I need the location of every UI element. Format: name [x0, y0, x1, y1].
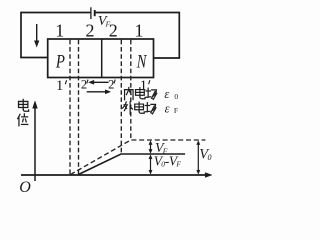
boundary line 2 right (dashed, down to biased plateau): [120, 40, 122, 154]
svg-text:1: 1: [55, 21, 64, 41]
svg-text:ε: ε: [165, 102, 170, 116]
svg-text:2: 2: [81, 78, 87, 92]
svg-text:V0-VF: V0-VF: [154, 153, 182, 168]
boundary line 2 left (dashed, down to axis): [78, 40, 80, 175]
junction center line: [101, 39, 103, 77]
battery VF long plate (+): [90, 7, 92, 19]
svg-text:1: 1: [140, 78, 148, 94]
svg-text:N: N: [136, 51, 148, 72]
wire right bottom horizontal into N: [154, 57, 181, 59]
potential curve no bias (dashed): rise then plateau V0: [70, 140, 205, 175]
label 外电场 eF (external field): [123, 102, 178, 116]
potential axis vertical: [33, 101, 38, 181]
svg-text:1: 1: [135, 21, 144, 41]
PN junction block outline: [48, 39, 154, 78]
wire left bottom horizontal into P: [20, 57, 48, 59]
V0 arrow (V0 plateau to axis): [197, 141, 200, 174]
svg-text:2: 2: [108, 78, 114, 92]
wire top-left from battery to left corner: [21, 12, 90, 14]
svg-text:V0: V0: [199, 147, 211, 163]
potential curve with bias (solid): rise then plateau V0-VF: [78, 154, 185, 175]
svg-text:F: F: [174, 106, 178, 115]
svg-text:O: O: [19, 179, 31, 192]
VF gap arrow (between V0 and biased plateau): [149, 141, 152, 154]
external field arrow (points right): [87, 90, 111, 94]
svg-text:P: P: [55, 51, 65, 72]
label 电位 (potential, vertical): [18, 99, 29, 125]
internal field arrow (points left): [89, 80, 109, 84]
boundary line 1 right (dashed, down to V0 plateau): [130, 40, 132, 140]
svg-text:ε: ε: [164, 87, 169, 101]
wire top-right from battery to right corner: [95, 12, 179, 14]
boundary line 1 left (dashed, down to axis): [69, 40, 71, 175]
label 内电场 e0 (internal field): [125, 87, 179, 101]
svg-text:0: 0: [174, 92, 178, 101]
V0-VF arrow (plateau to axis): [149, 155, 152, 174]
svg-text:2: 2: [109, 21, 118, 41]
current direction arrow: [35, 24, 39, 47]
svg-text:2: 2: [86, 21, 95, 41]
potential axis horizontal: [21, 173, 212, 178]
svg-text:1: 1: [56, 78, 64, 94]
wire left vertical: [20, 12, 22, 58]
wire right vertical: [178, 12, 180, 58]
battery VF short plate (-): [94, 10, 96, 16]
